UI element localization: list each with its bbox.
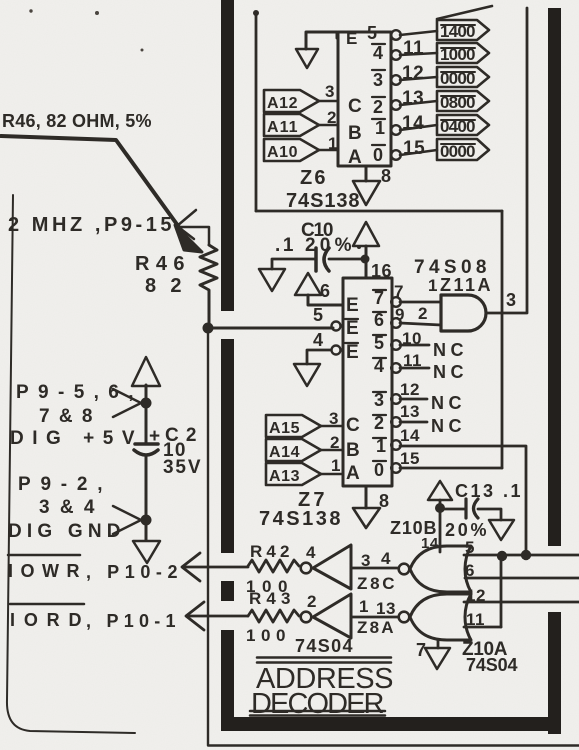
flag A13 <box>266 463 321 485</box>
svg-text:A12: A12 <box>267 95 298 112</box>
svg-text:13: 13 <box>376 599 396 618</box>
wire power to Z10B pin14 <box>439 500 442 552</box>
svg-text:12: 12 <box>466 586 486 605</box>
svg-text:6: 6 <box>320 281 331 301</box>
net wire top-left vertical <box>255 13 258 211</box>
IC Z7 74S138 box <box>343 278 392 486</box>
power triangle C10 <box>353 222 379 246</box>
IORD arrow <box>186 602 204 630</box>
Z6 output wires to flags <box>400 31 437 155</box>
svg-text:74S138: 74S138 <box>259 508 341 530</box>
svg-text:12: 12 <box>400 380 420 399</box>
net wire vertical x502 <box>501 211 504 468</box>
pin labels 7 9 10 11 12 13 14 15 <box>394 282 422 468</box>
svg-text:, P10-1: , P10-1 <box>86 611 176 631</box>
svg-text:E: E <box>346 318 359 339</box>
svg-text:IORD: IORD <box>10 610 82 630</box>
svg-text:R46: R46 <box>135 253 185 275</box>
Z8C output bubble <box>301 563 312 574</box>
wire R42 to arrow <box>184 566 248 569</box>
Z8A output bubble <box>301 612 312 623</box>
wire AND out <box>486 8 527 313</box>
svg-text:14: 14 <box>402 113 424 134</box>
svg-text:2: 2 <box>330 433 340 452</box>
banner diagonal above top flag <box>437 6 492 19</box>
svg-text:0: 0 <box>374 460 385 480</box>
wire bus 5 <box>464 554 579 557</box>
off-page arrow 2MHZ <box>177 210 196 239</box>
border thick left bar <box>221 0 234 731</box>
Z6 output letters 5 4 3 2 1 0 with overbars <box>367 23 386 165</box>
svg-text:A14: A14 <box>269 444 300 461</box>
svg-text:2: 2 <box>373 97 384 117</box>
svg-text:B: B <box>346 440 360 461</box>
svg-text:2: 2 <box>418 304 428 323</box>
title double underline <box>250 711 385 716</box>
resistor R42 <box>248 560 299 572</box>
svg-text:C: C <box>348 96 362 117</box>
wire pin15 long <box>400 467 502 470</box>
power triangle C13 <box>428 481 452 500</box>
Z10B output bubble <box>399 564 410 575</box>
svg-text:1: 1 <box>375 118 386 138</box>
ground triangle C13 <box>489 520 514 540</box>
address flags 1400,1000,0000,0800,0400,0000 <box>437 20 489 160</box>
ground triangle DIG GND <box>133 541 160 563</box>
label IOWR P10-2 <box>8 554 80 557</box>
svg-text:A: A <box>348 147 362 168</box>
wire Z6 enable <box>306 32 337 49</box>
svg-text:R46, 82 OHM, 5%: R46, 82 OHM, 5% <box>2 111 152 131</box>
wire bus 6 <box>465 577 579 580</box>
svg-text:7: 7 <box>394 282 404 301</box>
GND junction dot <box>141 515 152 526</box>
svg-text:4: 4 <box>373 43 384 63</box>
Z7 pin8 ground <box>365 486 368 508</box>
svg-text:13: 13 <box>402 88 424 109</box>
leader arrow to R46 <box>1 136 189 241</box>
svg-text:E: E <box>346 29 358 48</box>
wire C2 to GND node <box>145 455 148 540</box>
svg-text:P9-2,: P9-2, <box>18 474 103 495</box>
svg-text:IOWR: IOWR <box>8 561 80 581</box>
svg-text:Z6: Z6 <box>300 167 326 189</box>
svg-text:NC: NC <box>433 362 464 382</box>
resistor R46 <box>200 245 217 293</box>
svg-text:2: 2 <box>307 592 317 611</box>
ground triangle Z6 enable <box>296 49 318 68</box>
svg-text:C13 .1: C13 .1 <box>455 481 521 501</box>
inner sheet thin line vertical <box>207 333 209 745</box>
junction dot C13 <box>435 503 445 513</box>
wire to R43 <box>188 615 248 618</box>
svg-text:7&8: 7&8 <box>39 406 93 427</box>
svg-text:8: 8 <box>381 166 392 186</box>
GND arrow <box>113 506 141 534</box>
power triangle Z7 pin6 <box>295 273 321 295</box>
speck marks top-left <box>29 9 143 51</box>
IOWR arrow <box>182 553 200 581</box>
svg-text:3: 3 <box>373 70 384 90</box>
Z7 output bubbles <box>391 297 401 473</box>
svg-text:A10: A10 <box>267 144 298 161</box>
wire node to Z7 pin5 <box>208 327 333 330</box>
wire R46 to node <box>208 293 211 327</box>
svg-text:4: 4 <box>306 543 316 562</box>
svg-text:74S138: 74S138 <box>286 190 360 212</box>
svg-text:P9-5,6,: P9-5,6, <box>16 382 134 403</box>
svg-text:2: 2 <box>327 108 337 127</box>
power triangle +5V <box>132 357 160 386</box>
ground triangle Z10A <box>425 648 450 669</box>
title double overline <box>257 658 391 663</box>
svg-text:4: 4 <box>381 549 391 568</box>
+5V arrow <box>113 389 141 417</box>
wire vertical to pin11 <box>500 556 503 627</box>
svg-text:3: 3 <box>325 82 335 101</box>
svg-text:E: E <box>346 295 359 316</box>
AND gate Z11A <box>441 295 486 331</box>
svg-text:+: + <box>149 426 161 447</box>
flag A15 <box>266 415 321 437</box>
flag A12 <box>264 90 319 112</box>
svg-text:E: E <box>346 342 359 363</box>
capacitor C2 <box>135 442 158 446</box>
inverter Z8C <box>313 545 351 589</box>
svg-text:82: 82 <box>145 275 182 297</box>
wire A10 to A <box>319 149 338 152</box>
Z10A output bubble <box>399 612 410 623</box>
svg-text:14: 14 <box>400 426 420 445</box>
net wire horizontal y211 <box>256 210 502 213</box>
svg-text:1: 1 <box>331 456 341 475</box>
svg-text:1: 1 <box>428 276 438 295</box>
inverter Z8A <box>313 594 351 638</box>
wire pin6 <box>308 295 343 305</box>
svg-text:A15: A15 <box>269 420 300 437</box>
svg-text:12: 12 <box>402 63 424 84</box>
wire pin14 long <box>400 446 526 550</box>
svg-text:A11: A11 <box>267 119 298 136</box>
wire Z8A in <box>351 616 398 619</box>
svg-text:13: 13 <box>400 402 420 421</box>
svg-text:R42: R42 <box>250 542 290 561</box>
svg-text:5: 5 <box>313 305 324 325</box>
svg-text:3&4: 3&4 <box>39 497 95 518</box>
node junction dot <box>203 323 214 334</box>
NC wires pins 10-13 <box>400 345 429 422</box>
flag A11 <box>264 114 319 136</box>
svg-text:3: 3 <box>329 409 339 428</box>
svg-text:100: 100 <box>246 626 286 645</box>
label IORD P10-1 <box>10 603 84 606</box>
svg-text:3: 3 <box>506 290 517 310</box>
Z7 pin5 bubble <box>332 322 341 331</box>
svg-text:, P10-2: , P10-2 <box>86 562 178 582</box>
wire C10 to ground <box>272 259 316 269</box>
wire pin4 to ground <box>307 350 331 364</box>
NOR gate Z10B <box>410 546 471 592</box>
capacitor C10 <box>314 248 318 271</box>
svg-text:15: 15 <box>403 138 425 159</box>
svg-text:.1: .1 <box>275 235 294 256</box>
wire bus 11 <box>464 626 501 629</box>
svg-text:R43: R43 <box>249 589 291 608</box>
svg-text:11: 11 <box>403 38 424 59</box>
svg-text:5: 5 <box>465 538 475 557</box>
svg-text:20%: 20% <box>445 520 487 540</box>
ground triangle pin4 <box>294 364 320 386</box>
wire 2MHZ to R46 <box>179 227 209 245</box>
wire Z8C in <box>351 567 398 570</box>
svg-text:3: 3 <box>361 551 371 570</box>
junction dot C10 <box>361 255 370 264</box>
svg-text:15: 15 <box>400 449 420 468</box>
wire C10 to node <box>329 258 365 261</box>
wires A15 A14 A13 <box>321 426 343 474</box>
flag A10 <box>264 139 319 161</box>
capacitor C13 <box>440 508 466 511</box>
IC Z6 74S138 box <box>338 32 391 166</box>
svg-text:5: 5 <box>367 23 378 43</box>
svg-text:1: 1 <box>328 134 338 153</box>
border thick right bar <box>548 8 561 734</box>
svg-text:NC: NC <box>431 393 462 413</box>
svg-text:11: 11 <box>466 610 485 629</box>
svg-text:C: C <box>346 415 360 436</box>
svg-text:20%: 20% <box>305 235 352 256</box>
wire +5V to C2 <box>145 385 148 444</box>
wire bus 12 <box>464 601 579 604</box>
border thick bottom bar <box>222 717 561 731</box>
svg-text:NC: NC <box>431 416 462 436</box>
svg-text:DIG GND: DIG GND <box>8 521 121 542</box>
Z7 pin4 bubble <box>332 346 341 355</box>
wire power to Z7 pin16 <box>365 246 368 278</box>
wire A12 to C <box>319 100 338 103</box>
svg-text:DIG +5V: DIG +5V <box>10 428 135 449</box>
wire A11 to B <box>319 124 338 127</box>
Z6 pin8 ground <box>365 166 368 181</box>
wire pin9 to AND <box>400 323 441 325</box>
svg-text:A: A <box>346 463 360 484</box>
svg-text:4: 4 <box>313 330 324 350</box>
Z7 output letters 7..0 with overbars <box>374 288 387 480</box>
pin labels 11-15 <box>402 38 425 159</box>
svg-text:Z8A: Z8A <box>357 618 394 637</box>
Z6 output bubbles <box>391 30 401 160</box>
NC labels <box>431 340 464 436</box>
resistor R43 <box>248 610 299 622</box>
junction dot bus5 a <box>497 551 507 561</box>
inner sheet thin line bottom <box>208 744 579 746</box>
svg-text:74S04: 74S04 <box>295 636 353 656</box>
+5V junction dot <box>141 398 152 409</box>
svg-text:Z8C: Z8C <box>357 574 395 593</box>
svg-text:9: 9 <box>395 305 405 324</box>
wire pin7 to AND <box>400 301 441 304</box>
svg-text:NC: NC <box>433 340 464 360</box>
svg-text:6: 6 <box>465 561 475 580</box>
NOR gate Z10A <box>410 594 471 640</box>
flag A14 <box>266 439 321 461</box>
svg-text:B: B <box>348 123 362 144</box>
outer page edge curve bottom-left <box>7 195 135 733</box>
svg-text:35V: 35V <box>163 457 201 478</box>
Z10A pin7 ground wire <box>437 640 440 648</box>
ground triangle C10 <box>259 269 285 291</box>
junction dot bus5 b <box>521 550 531 560</box>
svg-text:2 MHZ ,P9-15: 2 MHZ ,P9-15 <box>8 214 172 236</box>
svg-text:A13: A13 <box>269 468 300 485</box>
svg-text:1: 1 <box>359 597 369 616</box>
svg-text:0: 0 <box>373 145 384 165</box>
svg-text:Z11A: Z11A <box>440 275 491 295</box>
svg-text:74S04: 74S04 <box>466 655 518 675</box>
